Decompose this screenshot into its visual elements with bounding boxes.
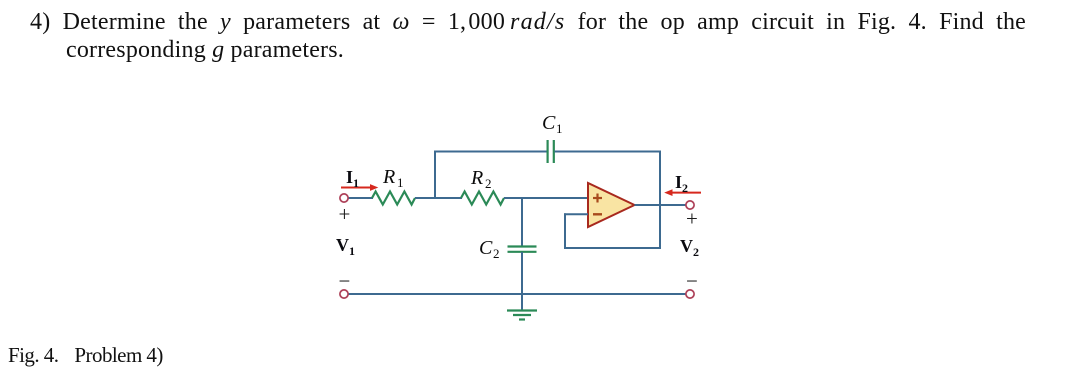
wire: C2 to bottom rail bbox=[521, 252, 523, 294]
label I1 bbox=[346, 167, 359, 190]
node A: junction of R1, R2, C1 branch bbox=[434, 151, 436, 199]
svg-text:+: + bbox=[339, 202, 351, 226]
node B: junction to C2 bbox=[521, 198, 523, 246]
label I2 bbox=[675, 172, 688, 195]
svg-text:1: 1 bbox=[353, 176, 359, 190]
label plus V1 bbox=[339, 202, 351, 226]
capacitor C2 bbox=[508, 247, 537, 252]
wire: bottom rail bbox=[348, 293, 686, 295]
label plus V2 bbox=[686, 206, 698, 230]
wire: right vertical from top rail through output node bbox=[659, 151, 661, 250]
terminal: V2 minus bbox=[686, 290, 694, 298]
capacitor C1 bbox=[548, 140, 554, 163]
wire: top feedback rail right segment bbox=[555, 151, 662, 153]
wire: feedback left vertical bbox=[564, 213, 566, 249]
svg-text:I: I bbox=[675, 172, 682, 192]
label V2 bbox=[680, 236, 699, 259]
wire: R2 to op-amp noninverting input bbox=[504, 197, 588, 199]
svg-text:−: − bbox=[339, 269, 351, 293]
svg-text:C: C bbox=[479, 237, 493, 259]
label V1 bbox=[336, 235, 355, 258]
resistor R2 bbox=[461, 192, 504, 205]
svg-text:2: 2 bbox=[493, 246, 500, 261]
label minus V1 bbox=[339, 269, 351, 293]
label minus V2 bbox=[686, 269, 698, 293]
wire: op-amp output to terminal bbox=[635, 204, 686, 206]
svg-text:I: I bbox=[346, 167, 353, 187]
svg-text:R: R bbox=[382, 166, 395, 188]
current arrow I1 bbox=[341, 184, 378, 191]
svg-text:1: 1 bbox=[397, 175, 404, 190]
wire: input terminal to R1 bbox=[348, 197, 373, 199]
svg-text:R: R bbox=[470, 167, 483, 189]
wire: R1 to node A bbox=[415, 197, 462, 199]
svg-text:1: 1 bbox=[349, 244, 355, 258]
label C2 bbox=[479, 237, 500, 261]
terminal: V1 plus bbox=[340, 194, 348, 202]
svg-text:−: − bbox=[686, 269, 698, 293]
svg-text:2: 2 bbox=[485, 176, 492, 191]
svg-text:V: V bbox=[336, 235, 349, 255]
terminal: V2 plus bbox=[686, 201, 694, 209]
terminal: V1 minus bbox=[340, 290, 348, 298]
wire: inverting input feedback lead bbox=[564, 213, 588, 215]
wire: feedback bottom horizontal bbox=[564, 247, 661, 249]
svg-text:1: 1 bbox=[556, 121, 563, 136]
label R1 bbox=[382, 166, 404, 190]
op-amp U1 bbox=[588, 183, 635, 227]
wire: top feedback rail left segment bbox=[434, 151, 547, 153]
svg-text:2: 2 bbox=[682, 181, 688, 195]
label R2 bbox=[470, 167, 492, 191]
svg-text:C: C bbox=[542, 112, 556, 134]
svg-text:+: + bbox=[686, 206, 698, 230]
svg-text:2: 2 bbox=[693, 245, 699, 259]
label C1 bbox=[542, 112, 563, 136]
svg-text:V: V bbox=[680, 236, 693, 256]
resistor R1 bbox=[372, 192, 415, 205]
ground bbox=[507, 294, 537, 320]
current arrow I2 bbox=[664, 189, 701, 196]
